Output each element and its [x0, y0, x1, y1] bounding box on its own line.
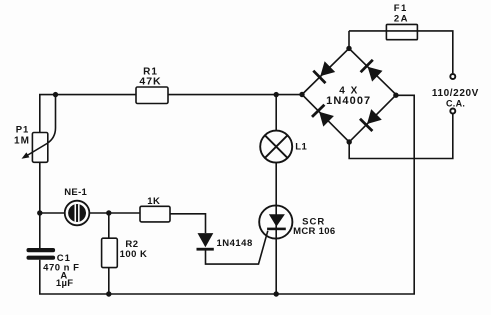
svg-text:P1: P1 [16, 125, 30, 136]
svg-text:1K: 1K [147, 196, 160, 207]
node lamp branch [274, 92, 279, 97]
svg-text:1N4007: 1N4007 [326, 95, 371, 107]
lamp L1 cross [265, 135, 288, 158]
node R2 top junction [106, 210, 111, 215]
AC terminal 1 [450, 74, 455, 79]
diode D1 top-left (cathode to left corner) [313, 61, 335, 83]
potentiometer P1 arrowhead [22, 152, 30, 158]
capacitor C1 top plate [27, 248, 56, 252]
wire R2 bottom lead [108, 268, 110, 294]
wire top-left corner to R1 [40, 95, 136, 133]
wire NE-1 left lead [40, 212, 65, 214]
fuse F1 2A body [386, 24, 417, 39]
wire P1 wiper to top node [25, 95, 56, 157]
wire NE-1 right lead to 1K [89, 212, 140, 214]
node bridge left corner [299, 92, 304, 97]
node R2 bottom junction [106, 291, 111, 296]
lamp L1 circle [260, 131, 292, 163]
diode D2 top-right (cathode to top corner) [361, 60, 383, 82]
SCR cathode bar [267, 228, 286, 231]
node bridge bottom corner [347, 139, 352, 144]
node SCR cathode junction [274, 291, 279, 296]
wire AC terminal 2 to bridge bottom corner [349, 114, 453, 159]
wire R1 to bridge left corner [168, 94, 302, 96]
node bridge top corner [346, 46, 351, 51]
wire C1 to bottom rail, bottom rail, right rail [40, 95, 414, 294]
diode 1N4148 cathode bar [197, 248, 214, 251]
svg-text:1N4148: 1N4148 [216, 238, 252, 249]
wire top rail to lamp L1 [275, 95, 277, 131]
wire fuse rail to AC terminal 1 [349, 31, 453, 73]
diode D4 bottom-right (cathode to bottom corner) [360, 109, 382, 131]
wire P1 bottom to C1 [39, 162, 41, 248]
node wiper junction [53, 92, 58, 97]
neon lamp NE-1 electrodes [68, 202, 86, 224]
neon lamp NE-1 outer circle [65, 201, 90, 226]
node NE-1 left junction [37, 210, 42, 215]
svg-text:L1: L1 [295, 141, 307, 152]
SCR triangle [269, 214, 285, 226]
wire bridge top corner riser [348, 31, 350, 49]
diode 1N4148 triangle [198, 233, 214, 247]
AC terminal 2 [450, 109, 455, 114]
resistor R2 100K body [102, 238, 118, 267]
svg-text:1µF: 1µF [56, 278, 73, 289]
SCR MCR106 circle [259, 205, 292, 238]
svg-text:100 K: 100 K [120, 249, 148, 260]
svg-text:F1: F1 [394, 3, 408, 14]
resistor 1K body [140, 206, 170, 222]
wire 1N4148 to SCR gate [206, 231, 268, 264]
node bridge right corner [393, 93, 398, 98]
bridge rectifier diamond 4X 1N4007 [302, 48, 396, 142]
svg-text:C.A.: C.A. [446, 98, 465, 108]
potentiometer P1 1M body [32, 133, 47, 163]
wire lamp L1 to SCR anode and SCR cathode to bottom rail [275, 163, 277, 295]
diode D3 bottom-left (cathode to left corner) [312, 105, 334, 127]
svg-text:2A: 2A [394, 13, 409, 24]
wire 1K to 1N4148 [170, 214, 206, 233]
svg-text:NE-1: NE-1 [64, 187, 87, 198]
resistor R1 47K body [136, 87, 168, 104]
wire R2 top lead [108, 213, 110, 238]
svg-text:MCR 106: MCR 106 [293, 226, 335, 237]
svg-text:1M: 1M [14, 136, 30, 147]
svg-text:47K: 47K [139, 75, 161, 87]
capacitor C1 bottom plate [27, 256, 56, 260]
